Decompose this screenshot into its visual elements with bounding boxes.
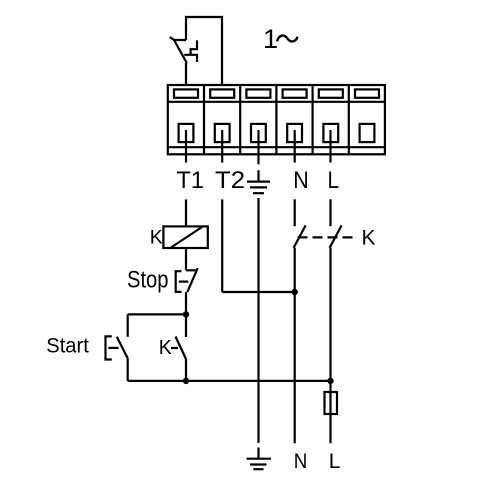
svg-text:Stop: Stop <box>127 267 169 294</box>
svg-text:L: L <box>329 450 341 473</box>
svg-text:N: N <box>293 167 309 194</box>
svg-text:1: 1 <box>263 24 278 54</box>
svg-text:K: K <box>159 337 173 359</box>
svg-text:Start: Start <box>46 334 89 357</box>
svg-text:T2: T2 <box>215 167 245 194</box>
svg-text:K: K <box>362 227 376 250</box>
svg-text:L: L <box>328 167 340 194</box>
svg-text:N: N <box>294 450 308 473</box>
svg-text:K: K <box>150 226 163 248</box>
svg-text:T1: T1 <box>177 167 205 194</box>
